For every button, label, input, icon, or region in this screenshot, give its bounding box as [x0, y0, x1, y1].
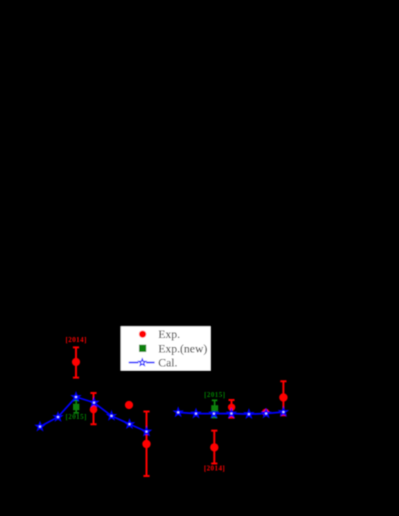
svg-text:[2014]: [2014] [204, 465, 225, 473]
svg-text:Cal.: Cal. [158, 357, 177, 370]
right panel bottom x=214.3 [211, 431, 217, 464]
right panel pt1 x=231.5 [229, 400, 235, 418]
svg-text:Exp.: Exp. [158, 328, 180, 341]
left panel pt1 x=76 [73, 347, 79, 377]
svg-text:[2015]: [2015] [204, 391, 225, 399]
svg-text:[2014]: [2014] [66, 336, 87, 344]
left panel pt4 x=146.5 [143, 412, 149, 477]
right panel big x=283.4 [280, 381, 286, 415]
svg-text:Exp.(new): Exp.(new) [158, 342, 207, 355]
svg-text:[2015]: [2015] [66, 413, 87, 421]
left panel pt2 x=93.5 [90, 393, 96, 424]
